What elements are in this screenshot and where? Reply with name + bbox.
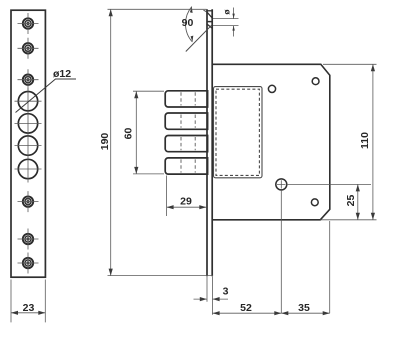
lock case rectangle (solid) [214, 87, 263, 178]
dimension 60 [133, 91, 164, 174]
hole B top right [312, 78, 319, 85]
latch tip small dimension [233, 8, 235, 37]
bolt 4 side view [165, 158, 207, 174]
hole D bottom right [311, 199, 318, 206]
latch tip extension lines [213, 19, 239, 26]
dimension 3 (faceplate thickness) [194, 277, 229, 315]
extension tick at faceplate tip [204, 10, 207, 12]
dimension 52 [213, 312, 282, 314]
lock case rectangle (dashed hidden edge) [216, 89, 259, 175]
bolt 1 side view [165, 91, 207, 107]
dimension 29 [167, 176, 207, 217]
leader line for ø12 [16, 79, 77, 113]
faceplate bevel edge (upper) [207, 12, 213, 19]
bolt hole B3 (ø12) [15, 136, 42, 155]
arc arrowheads [190, 7, 193, 13]
faceplate front view outline [11, 10, 45, 277]
svg-text:90: 90 [182, 17, 194, 29]
screw hole S4 [18, 191, 39, 212]
dimension 23 [11, 280, 45, 323]
bolt 2 side view [165, 113, 207, 129]
angle dimension arc 90 [185, 7, 192, 42]
dimension 190 [108, 9, 214, 275]
svg-text:ø: ø [221, 9, 231, 15]
screw hole S1 [18, 13, 39, 34]
screw hole S2 [18, 38, 39, 59]
bolt hole B2 (ø12) [15, 114, 42, 133]
svg-text:23: 23 [23, 302, 35, 314]
bevel construction line [186, 25, 212, 51]
svg-text:3: 3 [223, 286, 229, 298]
svg-text:ø12: ø12 [53, 68, 71, 80]
lock body outline [213, 64, 330, 220]
dimension 110 [321, 64, 377, 220]
dimension 25 [357, 184, 359, 219]
vertical centerline through bolt holes [27, 88, 29, 183]
bolt 3 side view [165, 136, 207, 152]
svg-text:35: 35 [298, 302, 310, 314]
screw hole S3 [18, 69, 39, 90]
svg-text:25: 25 [345, 195, 357, 207]
svg-text:60: 60 [123, 128, 135, 140]
bolt hole B4 (ø12) [15, 159, 42, 178]
svg-text:110: 110 [359, 132, 371, 149]
faceplate bevel edge (lower) [207, 24, 213, 29]
screw hole S6 [18, 253, 39, 274]
hole A top [268, 85, 275, 92]
bolt hole B1 (ø12) [15, 92, 42, 111]
faceplate side view (vertical bar) [206, 9, 213, 276]
center hole C with centerlines [276, 179, 371, 313]
svg-text:190: 190 [99, 133, 111, 151]
dimension 35 [281, 221, 329, 313]
screw hole S5 [18, 229, 39, 250]
svg-text:52: 52 [240, 302, 252, 314]
svg-text:29: 29 [180, 196, 192, 208]
